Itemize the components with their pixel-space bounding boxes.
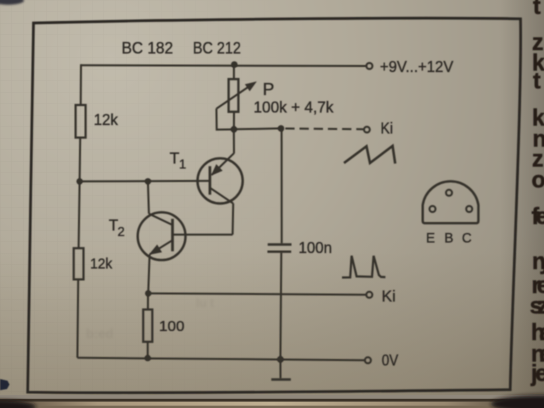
top-left corner smudge: [0, 0, 24, 5]
svg-text:t: t: [533, 0, 541, 19]
svg-text:100n: 100n: [299, 240, 333, 257]
svg-text:BC 212: BC 212: [193, 38, 241, 57]
wire: pot junction to cap junction: [234, 127, 281, 130]
svg-text:12k: 12k: [90, 257, 113, 273]
svg-text:lu t: lu t: [196, 296, 214, 310]
wire: R3 riser: [147, 293, 149, 309]
svg-text:ny: ny: [532, 248, 544, 274]
node: cap top junction: [278, 125, 285, 132]
resistor R2 12k body: [74, 248, 84, 279]
package pin C: [466, 206, 472, 212]
node: R3 bottom rail: [145, 355, 151, 361]
terminal Ki pulse: [366, 292, 372, 298]
wire: +V top rail: [81, 64, 366, 67]
right column clipped text: [530, 0, 544, 386]
wire: left rail seg3: [79, 181, 80, 248]
svg-text:je: je: [530, 360, 544, 386]
wire: pot bottom riser: [233, 112, 235, 130]
node: pot wiper junction: [231, 126, 238, 133]
wire: T2 collector riser: [148, 181, 149, 213]
svg-text:b:ed: b:ed: [86, 326, 114, 341]
svg-text:fe: fe: [532, 203, 544, 229]
wire: T1 emitter riser: [233, 129, 235, 154]
capacitor C1 100n: [267, 245, 291, 252]
node: base wire / T2 collector: [145, 178, 151, 184]
svg-text:Ki: Ki: [382, 289, 396, 306]
wire: T2 emitter down: [148, 255, 149, 294]
node: T2 emitter junction: [145, 290, 151, 296]
svg-text:B: B: [444, 230, 453, 245]
svg-text:Ki: Ki: [381, 121, 394, 138]
wire: dashed to Ki terminal: [285, 128, 363, 131]
transistor package outline TO-92: [423, 181, 479, 223]
wire: left rail upper: [80, 64, 82, 105]
bottom band: [0, 395, 544, 408]
wire: T2 base wire: [174, 234, 233, 236]
node: cap bottom rail: [277, 356, 284, 363]
wire: T1 collector down: [232, 203, 235, 234]
sawtooth waveform icon: [344, 146, 395, 164]
svg-text:E: E: [426, 230, 435, 245]
svg-text:P: P: [263, 79, 275, 99]
package pin B: [446, 190, 452, 196]
transistor T2: [138, 212, 186, 260]
wire: R3 bottom: [147, 342, 149, 358]
package pin E: [430, 206, 436, 212]
svg-text:+9V...+12V: +9V...+12V: [380, 59, 454, 76]
svg-text:100k + 4,7k: 100k + 4,7k: [254, 99, 334, 116]
wire: left rail lower: [76, 279, 79, 357]
ground symbol: [271, 359, 291, 379]
wire: pulse Ki wire: [148, 293, 366, 294]
wire: capacitor bottom riser: [279, 253, 282, 359]
wire: capacitor top riser: [281, 130, 283, 244]
terminal 0V: [365, 357, 371, 363]
potentiometer P body: [229, 79, 239, 112]
terminal +9V: [366, 63, 372, 69]
wire: T1 base wire: [80, 180, 209, 183]
svg-text:12k: 12k: [94, 112, 119, 129]
transistor T1: [198, 153, 243, 203]
left-edge dark mark: [0, 379, 10, 390]
resistor R1 12k body: [76, 105, 86, 138]
faint ghosting: [86, 296, 214, 341]
svg-text:0V: 0V: [382, 353, 399, 370]
svg-text:1: 1: [179, 157, 186, 172]
wire: left rail seg2: [79, 138, 82, 182]
potentiometer wiper arm: [216, 87, 248, 130]
potentiometer arrowhead: [246, 82, 256, 90]
svg-text:o: o: [532, 167, 544, 193]
terminal Ki sawtooth: [364, 127, 370, 133]
svg-text:100: 100: [159, 318, 185, 335]
svg-text:sz: sz: [530, 293, 544, 319]
svg-text:C: C: [462, 230, 472, 245]
node: left rail / base wire: [76, 178, 82, 184]
node: top rail / pot: [231, 61, 238, 68]
svg-text:t: t: [533, 68, 541, 94]
svg-text:BC 182: BC 182: [122, 39, 174, 58]
wire: bottom 0V rail: [77, 358, 365, 360]
resistor R3 100 body: [143, 310, 152, 342]
svg-text:2: 2: [118, 224, 125, 239]
pulse waveform icon: [342, 256, 385, 278]
wire: pot top riser: [233, 65, 235, 79]
